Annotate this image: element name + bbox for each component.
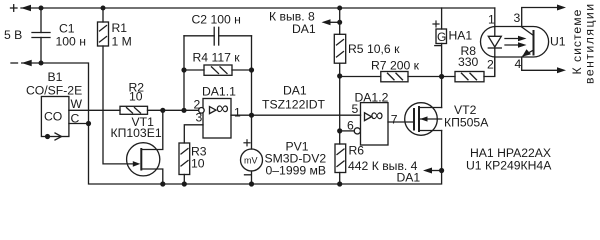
wire pin4 arrow bbox=[429, 170, 442, 172]
svg-text:R1: R1 bbox=[112, 21, 128, 35]
wire HA1 to VT2 drain bbox=[441, 44, 443, 108]
svg-text:C1: C1 bbox=[59, 22, 75, 36]
svg-text:КП505А: КП505А bbox=[444, 116, 489, 130]
sensor B1 bbox=[41, 97, 69, 137]
svg-text:∞: ∞ bbox=[371, 105, 384, 125]
wire minus rail bbox=[22, 63, 442, 184]
svg-text:5 В: 5 В bbox=[4, 28, 22, 42]
svg-text:C2 100 н: C2 100 н bbox=[192, 13, 241, 27]
node light arrows bbox=[505, 38, 522, 40]
svg-text:mV: mV bbox=[244, 156, 258, 166]
wire R5 to R6 divider bbox=[339, 63, 341, 144]
svg-text:∞: ∞ bbox=[216, 98, 229, 118]
node pin 2 bbox=[199, 108, 205, 114]
svg-text:3: 3 bbox=[196, 111, 203, 125]
svg-text:КП103Е1: КП103Е1 bbox=[111, 126, 162, 140]
svg-text:2: 2 bbox=[487, 58, 494, 72]
resistor R6 bbox=[335, 144, 346, 173]
node junction R4 right bbox=[249, 67, 254, 72]
wire +5V top rail bbox=[21, 7, 495, 9]
capacitor C2 bbox=[184, 35, 214, 37]
svg-text:DA1: DA1 bbox=[397, 171, 421, 185]
resistor R4 bbox=[184, 69, 204, 71]
node pin 6 bbox=[354, 128, 360, 134]
buzzer HA1 bbox=[441, 8, 443, 29]
node minus arrow bbox=[22, 60, 32, 66]
svg-text:10: 10 bbox=[191, 157, 205, 171]
node pin 3 bbox=[522, 8, 561, 27]
wire DA1.1 out to DA1.2 in5 bbox=[231, 114, 361, 116]
node junction R5 top rail bbox=[337, 6, 342, 11]
wire R2 to DA1.1 in2 bbox=[148, 109, 199, 111]
node junction C1 top bbox=[39, 6, 44, 11]
node plus terminal label bbox=[11, 5, 18, 12]
node junction C1 bottom bbox=[39, 61, 44, 66]
wire B1 C to minus bbox=[69, 123, 89, 125]
wire R7 R8 row bbox=[340, 76, 381, 78]
svg-text:G: G bbox=[437, 30, 446, 44]
node junction pin6 tap bbox=[337, 128, 342, 133]
node junction R7 tap bbox=[337, 73, 342, 78]
svg-text:DA1.1: DA1.1 bbox=[202, 85, 236, 99]
node minus terminal label bbox=[11, 62, 18, 64]
wire feedback right vertical bbox=[251, 36, 253, 149]
svg-text:330: 330 bbox=[458, 55, 479, 69]
node B1 heater arrow bbox=[55, 133, 62, 140]
svg-text:2: 2 bbox=[194, 98, 201, 112]
svg-text:CO/SF-2E: CO/SF-2E bbox=[26, 84, 82, 98]
resistor R3 bbox=[179, 143, 190, 175]
svg-text:R4 117 к: R4 117 к bbox=[193, 51, 241, 65]
node junction feedback left bbox=[181, 108, 186, 113]
meter PV1 bbox=[241, 149, 263, 171]
node junction VT1 drain bbox=[160, 108, 165, 113]
svg-text:R5 10,6 к: R5 10,6 к bbox=[348, 42, 400, 56]
node junction R1 top bbox=[101, 6, 106, 11]
svg-text:R7 200 к: R7 200 к bbox=[371, 59, 420, 73]
svg-text:7: 7 bbox=[391, 112, 398, 126]
node junction R3 bottom bbox=[182, 181, 187, 186]
svg-text:DA1.2: DA1.2 bbox=[355, 90, 389, 104]
resistor R8 bbox=[455, 72, 484, 82]
resistor R7 bbox=[381, 72, 408, 82]
transistor VT2 bbox=[405, 103, 438, 136]
node junction pin8 tap bbox=[337, 20, 342, 25]
svg-text:DA1: DA1 bbox=[283, 84, 307, 98]
node junction PV1 bottom bbox=[249, 181, 254, 186]
svg-text:R6: R6 bbox=[349, 144, 365, 158]
transistor U1 output bbox=[533, 31, 535, 55]
node pin 1 bbox=[494, 8, 496, 36]
node junction pin4 tap bbox=[439, 168, 444, 173]
svg-text:U1 КР249КН4А: U1 КР249КН4А bbox=[466, 159, 552, 173]
svg-text:W: W bbox=[71, 97, 83, 111]
wire DA1.2 out to VT2 gate bbox=[388, 121, 414, 123]
wire feedback left vertical bbox=[183, 36, 185, 111]
diode U1 LED bbox=[488, 36, 501, 47]
node B1 heater dot bbox=[45, 134, 50, 139]
svg-text:B1: B1 bbox=[48, 70, 63, 84]
wire B1 W to R2 bbox=[69, 109, 120, 111]
svg-text:4: 4 bbox=[515, 57, 522, 71]
svg-text:HA1: HA1 bbox=[449, 29, 473, 43]
node junction output feedback bbox=[249, 113, 254, 118]
svg-text:5: 5 bbox=[352, 102, 359, 116]
svg-text:10: 10 bbox=[129, 90, 143, 104]
wire pin8 arrow bbox=[328, 21, 340, 23]
svg-text:100 н: 100 н bbox=[56, 35, 86, 49]
transistor VT1 bbox=[127, 143, 160, 176]
svg-text:0–1999 мВ: 0–1999 мВ bbox=[266, 164, 327, 178]
svg-text:U1: U1 bbox=[550, 35, 566, 49]
resistor R5 bbox=[339, 8, 341, 34]
svg-text:DA1: DA1 bbox=[292, 22, 316, 36]
resistor R1 bbox=[102, 8, 104, 22]
node junction C pin bbox=[86, 121, 91, 126]
svg-text:1: 1 bbox=[488, 13, 495, 27]
node junction R6 bottom bbox=[337, 181, 342, 186]
node junction VT1 source bbox=[160, 181, 165, 186]
svg-text:CO: CO bbox=[44, 110, 62, 124]
svg-text:TSZ122IDT: TSZ122IDT bbox=[262, 98, 326, 112]
node pin 4 bbox=[522, 57, 561, 70]
capacitor C1 bbox=[40, 8, 42, 33]
node +5V arrow bbox=[21, 5, 31, 11]
resistor R2 bbox=[120, 106, 148, 114]
wire R8 to U1 pin2 bbox=[484, 57, 495, 77]
wire R1 to VT1 gate bbox=[103, 46, 133, 164]
svg-text:3: 3 bbox=[514, 11, 521, 25]
wire pin6 to divider bbox=[340, 130, 355, 132]
svg-text:1: 1 bbox=[234, 106, 241, 120]
node junction VT2 drain net bbox=[439, 74, 444, 79]
wire pin3 to R3 bbox=[184, 125, 203, 143]
op-amp DA1.2 bbox=[361, 103, 389, 145]
node junction R4 left bbox=[181, 67, 186, 72]
svg-text:1 М: 1 М bbox=[112, 35, 132, 49]
optocoupler U1 bbox=[481, 27, 549, 58]
svg-text:вентиляции: вентиляции bbox=[583, 2, 597, 84]
